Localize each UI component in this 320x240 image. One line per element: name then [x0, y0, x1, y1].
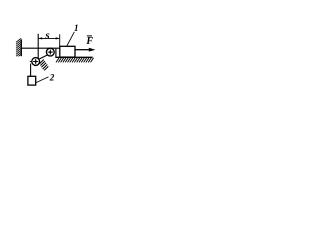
svg-text:F: F: [85, 36, 93, 47]
table corner edge: [55, 48, 57, 57]
axle stub of lower pulley: [30, 61, 32, 63]
leader line for label 2: [36, 77, 49, 83]
block 1: [60, 46, 75, 57]
fixed bracket hatching at lower pulley: [40, 60, 49, 71]
svg-text:2: 2: [49, 72, 55, 82]
upper pulley: [46, 48, 54, 56]
wall hatching (left fixed support): [16, 38, 21, 58]
wire: vertical string at dimension left / down to lower pulley: [37, 34, 39, 59]
wire: horizontal string from wall to block 1: [21, 47, 60, 49]
force F arrowhead: [89, 48, 96, 52]
block 2: [28, 76, 36, 85]
leader line for label 1: [67, 32, 75, 47]
dimension arrowhead left: [38, 37, 42, 39]
dimension s line: [39, 37, 60, 39]
dimension arrowhead right: [56, 37, 60, 39]
wire: string down to block 2: [30, 64, 32, 77]
wire: string between upper and lower pulleys: [39, 55, 48, 59]
lower pulley: [32, 58, 40, 66]
wall edge line: [20, 39, 22, 56]
overbar of F: [87, 35, 92, 37]
svg-text:s: s: [44, 30, 49, 42]
svg-text:1: 1: [74, 23, 79, 33]
ground line: [55, 56, 92, 58]
ground hatching: [56, 58, 94, 63]
force F arrow shaft: [75, 49, 90, 51]
dimension extension line right: [59, 34, 61, 46]
